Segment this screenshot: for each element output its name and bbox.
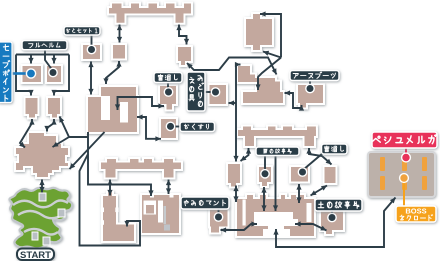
- wire midori branch: [229, 100, 237, 105]
- wire midori label line: [205, 91, 211, 93]
- wire L loop: [80, 154, 141, 246]
- node boss red dot: [402, 153, 411, 162]
- svg-text:BOSS: BOSS: [405, 207, 426, 216]
- room R mid staircase: [237, 65, 284, 104]
- wire tree U-D branch: [60, 117, 89, 138]
- wire corr1b right door: [166, 180, 171, 195]
- room B full helm: [46, 65, 62, 83]
- wire P4-arena diag: [311, 186, 328, 196]
- room F: [112, 44, 126, 60]
- node boss orange dot: [400, 174, 409, 183]
- room arena: [236, 194, 315, 237]
- wire C-cross zig: [19, 119, 34, 148]
- wire pesh label line: [405, 148, 407, 156]
- label save point: [0, 42, 12, 103]
- room midori room: [209, 84, 228, 105]
- green rivers: [13, 201, 68, 235]
- wire E-U door: [88, 62, 93, 95]
- room okusuri room: [160, 118, 177, 139]
- label dokukeshi1: [154, 73, 182, 83]
- node yami dot: [214, 213, 222, 221]
- room yami room: [209, 208, 229, 234]
- room A save point: [22, 65, 43, 83]
- wire tree U-bottom: [88, 132, 154, 196]
- room corridor1b: [100, 158, 182, 179]
- wire save line: [11, 72, 27, 75]
- wire corr2L-P1: [241, 148, 252, 161]
- room tsuchi room: [320, 210, 344, 235]
- wire F-U zigzag: [103, 61, 121, 84]
- label midori paint: [187, 72, 205, 111]
- wire loop A side: [16, 55, 34, 96]
- wire P1-arena door: [233, 186, 238, 203]
- wire fullhelm line: [45, 50, 53, 71]
- room corridor2: [237, 126, 317, 148]
- room dokukeshi1 room: [159, 85, 177, 111]
- room complex2: [141, 194, 180, 234]
- label tsuchi pieces: [315, 199, 362, 211]
- room R top: [245, 13, 273, 51]
- wire yami label line: [218, 209, 220, 216]
- wire corr2R-P4: [306, 148, 331, 165]
- wire loop AB top: [16, 54, 69, 56]
- room E otoset: [82, 44, 101, 60]
- node save point dot: [26, 69, 35, 78]
- wire G2 long wire: [187, 58, 277, 75]
- label tobira pieces: [256, 147, 299, 156]
- node tsuchi dot: [328, 213, 336, 221]
- wire okusuri wire: [137, 114, 161, 141]
- room P1: [227, 163, 241, 188]
- label fullhelm: [22, 41, 67, 50]
- room C: [25, 97, 39, 119]
- room P3: [290, 166, 309, 183]
- wire Rmid2-earth: [285, 90, 305, 110]
- wire corridor1-F door: [117, 25, 122, 43]
- wire P3-arena door: [296, 184, 301, 203]
- wire earth label line: [309, 81, 311, 89]
- room D: [47, 97, 61, 119]
- green gates: [32, 193, 65, 245]
- label otoset: [64, 27, 100, 36]
- wire V wire P1-Rmid1: [233, 62, 240, 162]
- node earth dot: [306, 84, 314, 92]
- svg-text:START: START: [20, 250, 51, 261]
- wire arrow into B: [51, 55, 56, 64]
- wire tsuchi label line: [331, 211, 333, 216]
- node B dot: [49, 68, 57, 76]
- wire slot-dokukeshi wire: [115, 97, 164, 110]
- wire corridor1-G2: [176, 25, 189, 45]
- wire corr1b left door: [107, 180, 112, 196]
- wire P2 label line: [264, 156, 266, 173]
- node P2 dot: [261, 170, 269, 178]
- wire P2-arena door: [261, 187, 266, 211]
- room earth boots room: [297, 84, 324, 109]
- label peshmerga: [372, 132, 437, 148]
- wire okusuri label line: [174, 126, 180, 128]
- room G2: [177, 46, 192, 66]
- label earth boots: [290, 71, 339, 81]
- label yami cloak: [181, 197, 229, 209]
- label boss necrode: [396, 206, 436, 222]
- wire dokukeshi2 line: [304, 153, 324, 170]
- room boss: [368, 152, 435, 197]
- label start: [17, 249, 54, 261]
- wire otoset line: [91, 35, 93, 50]
- room P2 tobira room: [258, 166, 272, 187]
- wire dokukeshi1 label line: [167, 82, 169, 93]
- node dokukeshi1 dot: [164, 88, 172, 96]
- green start area: [9, 188, 72, 249]
- wire Rtop loop: [260, 11, 281, 57]
- wire D-cross zig: [44, 119, 56, 132]
- wire boss label line: [403, 181, 405, 206]
- wire loop B side: [51, 55, 69, 96]
- wire yami-arena: [221, 221, 258, 232]
- room P4: [324, 166, 337, 184]
- room cross room: [15, 132, 69, 178]
- node P3 dot: [298, 168, 306, 176]
- wire under-label courtyard: [273, 155, 278, 211]
- node okusuri dot: [166, 122, 174, 130]
- label dokukeshi2: [322, 144, 348, 154]
- wire arena-tsuchi: [295, 221, 327, 230]
- room corridor1: [108, 3, 192, 24]
- wire arena-boss long: [273, 198, 395, 248]
- room bigU complex: [87, 86, 138, 133]
- wire Rtop-Rmid2: [255, 58, 281, 91]
- label okusuri: [180, 122, 215, 132]
- wire diag U-cross: [70, 132, 105, 169]
- node otoset dot: [87, 45, 95, 53]
- wire Rtop bottom arrow: [263, 51, 281, 58]
- wire cross shoulder branch: [53, 137, 70, 147]
- wire arrow into A: [28, 55, 33, 64]
- wire cross-green door: [39, 180, 44, 193]
- room L room: [102, 192, 135, 243]
- node midori dot: [211, 88, 219, 96]
